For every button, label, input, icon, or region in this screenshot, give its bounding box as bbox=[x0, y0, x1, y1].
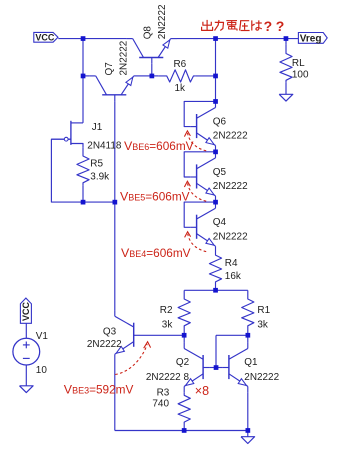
label R3 bbox=[157, 387, 170, 398]
svg-text:2N2222: 2N2222 bbox=[87, 339, 122, 350]
svg-text:R6: R6 bbox=[174, 59, 187, 70]
svg-text:Q1: Q1 bbox=[244, 357, 258, 368]
svg-text:VBE4=606mV: VBE4=606mV bbox=[121, 246, 191, 260]
label Q2 2N2222 8 bbox=[146, 372, 190, 383]
label Q1 bbox=[244, 357, 258, 368]
svg-text:Q5: Q5 bbox=[213, 167, 227, 178]
annotation x8 multiplier bbox=[195, 384, 209, 398]
title kanji 電 bbox=[226, 21, 237, 31]
svg-text:16k: 16k bbox=[225, 271, 241, 282]
wire right rail top bbox=[215, 39, 217, 102]
svg-text:R2: R2 bbox=[160, 305, 173, 316]
transistor Q1 2N2222 (diode connected) bbox=[223, 342, 248, 392]
svg-text:?: ? bbox=[276, 18, 285, 34]
wire R4 bottom node bbox=[184, 289, 248, 291]
transistor Q6 2N2222 (diode connected) bbox=[190, 101, 215, 151]
wire Q1 collector top bbox=[216, 334, 248, 336]
svg-text:Q8: Q8 bbox=[142, 26, 153, 40]
junction dot 8 bbox=[213, 150, 218, 155]
title kanji 力 bbox=[215, 20, 224, 31]
label V1 bbox=[36, 331, 49, 342]
svg-text:3k: 3k bbox=[257, 319, 268, 330]
label J1 bbox=[92, 122, 103, 133]
wire V1 minus to ground bbox=[25, 365, 27, 386]
ground (RL) bbox=[279, 94, 293, 101]
junction dot 11 bbox=[113, 200, 118, 205]
wire Q1 emitter down bbox=[247, 393, 249, 431]
label R6 bbox=[174, 59, 187, 70]
label R4 bbox=[225, 258, 238, 269]
net flag VCC (at V1) bbox=[20, 298, 31, 323]
svg-text:740: 740 bbox=[152, 399, 169, 410]
svg-text:Q7: Q7 bbox=[104, 62, 115, 76]
label Q7 2N2222 (rotated) bbox=[119, 40, 130, 75]
resistor R5 3.9k bbox=[77, 147, 89, 185]
transistor Q3 2N2222 (mirrored) bbox=[115, 310, 140, 360]
junction dot 12 bbox=[213, 288, 218, 293]
ground (V1) bbox=[20, 386, 34, 393]
svg-text:2N2222: 2N2222 bbox=[244, 372, 279, 383]
annotation arrow VBE6 bbox=[184, 131, 206, 151]
label Q5 2N2222 bbox=[213, 181, 248, 192]
transistor Q4 2N2222 (diode connected) bbox=[190, 202, 215, 252]
annotation VBE5=606mV bbox=[120, 190, 190, 204]
svg-text:2N4118: 2N4118 bbox=[87, 141, 122, 152]
svg-text:1k: 1k bbox=[175, 83, 186, 94]
svg-text:2N2222: 2N2222 bbox=[213, 131, 248, 142]
svg-text:100: 100 bbox=[292, 69, 309, 80]
svg-text:Q6: Q6 bbox=[213, 116, 227, 127]
svg-text:2N2222: 2N2222 bbox=[213, 231, 248, 242]
label Q3 bbox=[103, 326, 117, 337]
svg-text:3.9k: 3.9k bbox=[90, 172, 109, 183]
label Q8 (rotated) bbox=[142, 26, 153, 40]
net flag Vreg (output) bbox=[298, 33, 327, 45]
label 3.9k bbox=[90, 172, 109, 183]
junction dot 2 bbox=[213, 36, 218, 41]
wire R6 to right rail bbox=[196, 75, 216, 77]
resistor R1 3k bbox=[242, 290, 254, 328]
wire V1 plus to VCC flag bbox=[25, 323, 27, 339]
transistor Q5 2N2222 (diode connected) bbox=[190, 152, 215, 202]
svg-text:R5: R5 bbox=[90, 158, 103, 169]
label RL bbox=[292, 58, 305, 69]
label Q6 bbox=[213, 116, 227, 127]
title kanji 圧 bbox=[240, 21, 250, 31]
wire Q1 emitter node to ground bbox=[247, 431, 249, 437]
title kana は bbox=[252, 20, 262, 30]
wire Q5 collector-base loop bbox=[184, 152, 215, 177]
wire Q4 collector-base loop bbox=[184, 202, 215, 227]
junction dot 17 bbox=[246, 428, 251, 433]
svg-text:RL: RL bbox=[292, 58, 305, 69]
label 2N4118 bbox=[87, 141, 122, 152]
net flag VCC (top left) bbox=[34, 32, 58, 42]
resistor R6 1k bbox=[158, 70, 196, 82]
junction dot 5 bbox=[150, 74, 155, 79]
annotation VBE6=606mV bbox=[124, 139, 194, 153]
junction dot 15 bbox=[214, 365, 219, 370]
label Q3 2N2222 bbox=[87, 339, 122, 350]
label R2 bbox=[160, 305, 173, 316]
wire Q3 base to mirror node bbox=[140, 334, 184, 336]
label V1 10 bbox=[36, 365, 48, 376]
svg-text:Q3: Q3 bbox=[103, 326, 117, 337]
svg-text:V1: V1 bbox=[36, 331, 49, 342]
wire Q7 emitter to Q8 base node bbox=[140, 75, 152, 77]
svg-text:VBE3=592mV: VBE3=592mV bbox=[64, 382, 134, 396]
transistor Q7 2N2222 bbox=[90, 76, 140, 101]
wire R2 bottom stub bbox=[183, 328, 185, 335]
label 1k bbox=[175, 83, 186, 94]
resistor RL 100 bbox=[280, 45, 292, 83]
label R2 3k bbox=[162, 319, 173, 330]
svg-text:2N2222: 2N2222 bbox=[157, 4, 168, 39]
resistor R3 740 bbox=[178, 393, 190, 431]
wire middle rail Q7 base to Q3 collector bbox=[114, 101, 116, 310]
svg-text:Q4: Q4 bbox=[213, 217, 227, 228]
wire RL to ground bbox=[285, 83, 287, 95]
wire Q7 collector stub bbox=[83, 75, 90, 77]
label RL 100 bbox=[292, 69, 309, 80]
junction dot 4 bbox=[81, 74, 86, 79]
annotation arrow VBE3 bbox=[115, 342, 150, 375]
annotation VBE4=606mV bbox=[121, 246, 191, 260]
label R1 3k bbox=[257, 319, 268, 330]
wire Q6 collector-base loop bbox=[184, 101, 215, 126]
transistor Q8 2N2222 bbox=[127, 39, 177, 64]
svg-text:VCC: VCC bbox=[35, 32, 55, 42]
label R1 bbox=[257, 305, 270, 316]
wire node to R6 bbox=[152, 75, 158, 77]
wire J1 source to R5 bbox=[71, 144, 83, 148]
label Q5 bbox=[213, 167, 227, 178]
wire Q8 base down bbox=[151, 64, 153, 76]
wire output net top bbox=[177, 38, 298, 40]
transistor Q2 2N2222 x8 (mirrored) bbox=[184, 342, 209, 392]
label Q8 2N2222 (rotated) bbox=[157, 4, 168, 39]
wire J1 drain from rail bbox=[71, 122, 83, 124]
label Q2 bbox=[176, 357, 190, 368]
wire Vreg stub down to RL bbox=[285, 39, 287, 45]
svg-text:VBE6=606mV: VBE6=606mV bbox=[124, 139, 194, 153]
svg-text:Q2: Q2 bbox=[176, 357, 190, 368]
wire Q3 emitter down bbox=[114, 361, 116, 431]
svg-text:2N2222: 2N2222 bbox=[213, 181, 248, 192]
svg-text:VCC: VCC bbox=[21, 301, 31, 321]
wire Q1 collector stub bbox=[247, 335, 249, 342]
wire J1 gate left loop bbox=[51, 139, 83, 202]
wire R5 bottom bbox=[82, 185, 84, 202]
title ？？ bbox=[264, 18, 285, 34]
wire R5 net to middle rail bbox=[83, 201, 115, 203]
voltage source V1 10V bbox=[13, 338, 40, 365]
svg-text:R3: R3 bbox=[157, 387, 170, 398]
junction dot 10 bbox=[81, 200, 86, 205]
junction dot 1 bbox=[81, 36, 86, 41]
resistor R4 16k bbox=[209, 253, 221, 291]
label Q4 2N2222 bbox=[213, 231, 248, 242]
svg-text:×8: ×8 bbox=[195, 384, 209, 398]
label Q4 bbox=[213, 217, 227, 228]
svg-text:2N2222 8: 2N2222 8 bbox=[146, 372, 190, 383]
title kanji 出 bbox=[202, 20, 213, 31]
svg-text:2N2222: 2N2222 bbox=[119, 40, 130, 75]
wire left VCC rail vertical bbox=[82, 39, 84, 123]
svg-text:10: 10 bbox=[36, 365, 48, 376]
junction dot 14 bbox=[246, 333, 251, 338]
label 16k bbox=[225, 271, 241, 282]
svg-text:J1: J1 bbox=[92, 122, 103, 133]
label Q7 (rotated) bbox=[104, 62, 115, 76]
wire VCC top rail bbox=[58, 38, 126, 40]
annotation VBE3=592mV bbox=[64, 382, 134, 396]
label Q6 2N2222 bbox=[213, 131, 248, 142]
svg-text:VBE5=606mV: VBE5=606mV bbox=[120, 190, 190, 204]
label R5 bbox=[90, 158, 103, 169]
svg-text:Vreg: Vreg bbox=[300, 33, 322, 44]
JFET J1 2N4118 bbox=[51, 121, 71, 145]
junction dot 6 bbox=[213, 74, 218, 79]
junction dot 16 bbox=[182, 428, 187, 433]
label Q1 2N2222 bbox=[244, 372, 279, 383]
junction dot 3 bbox=[284, 36, 289, 41]
junction dot 9 bbox=[213, 200, 218, 205]
svg-text:?: ? bbox=[264, 18, 273, 34]
wire Q1 base up to collector bbox=[215, 335, 217, 367]
label R3 740 bbox=[152, 399, 169, 410]
wire Q2 collector stub bbox=[183, 335, 185, 342]
annotation arrow VBE4 bbox=[185, 232, 207, 252]
resistor R2 3k bbox=[178, 290, 190, 328]
svg-text:R4: R4 bbox=[225, 258, 238, 269]
annotation arrow VBE5 bbox=[184, 181, 206, 201]
svg-text:R1: R1 bbox=[257, 305, 270, 316]
wire Q2-Q1 base link bbox=[209, 367, 222, 369]
svg-text:3k: 3k bbox=[162, 319, 173, 330]
wire bottom ground rail bbox=[115, 430, 248, 432]
junction dot 13 bbox=[182, 333, 187, 338]
junction dot 7 bbox=[213, 99, 218, 104]
wire R1 bottom stub bbox=[247, 328, 249, 335]
ground (bottom) bbox=[241, 437, 255, 444]
